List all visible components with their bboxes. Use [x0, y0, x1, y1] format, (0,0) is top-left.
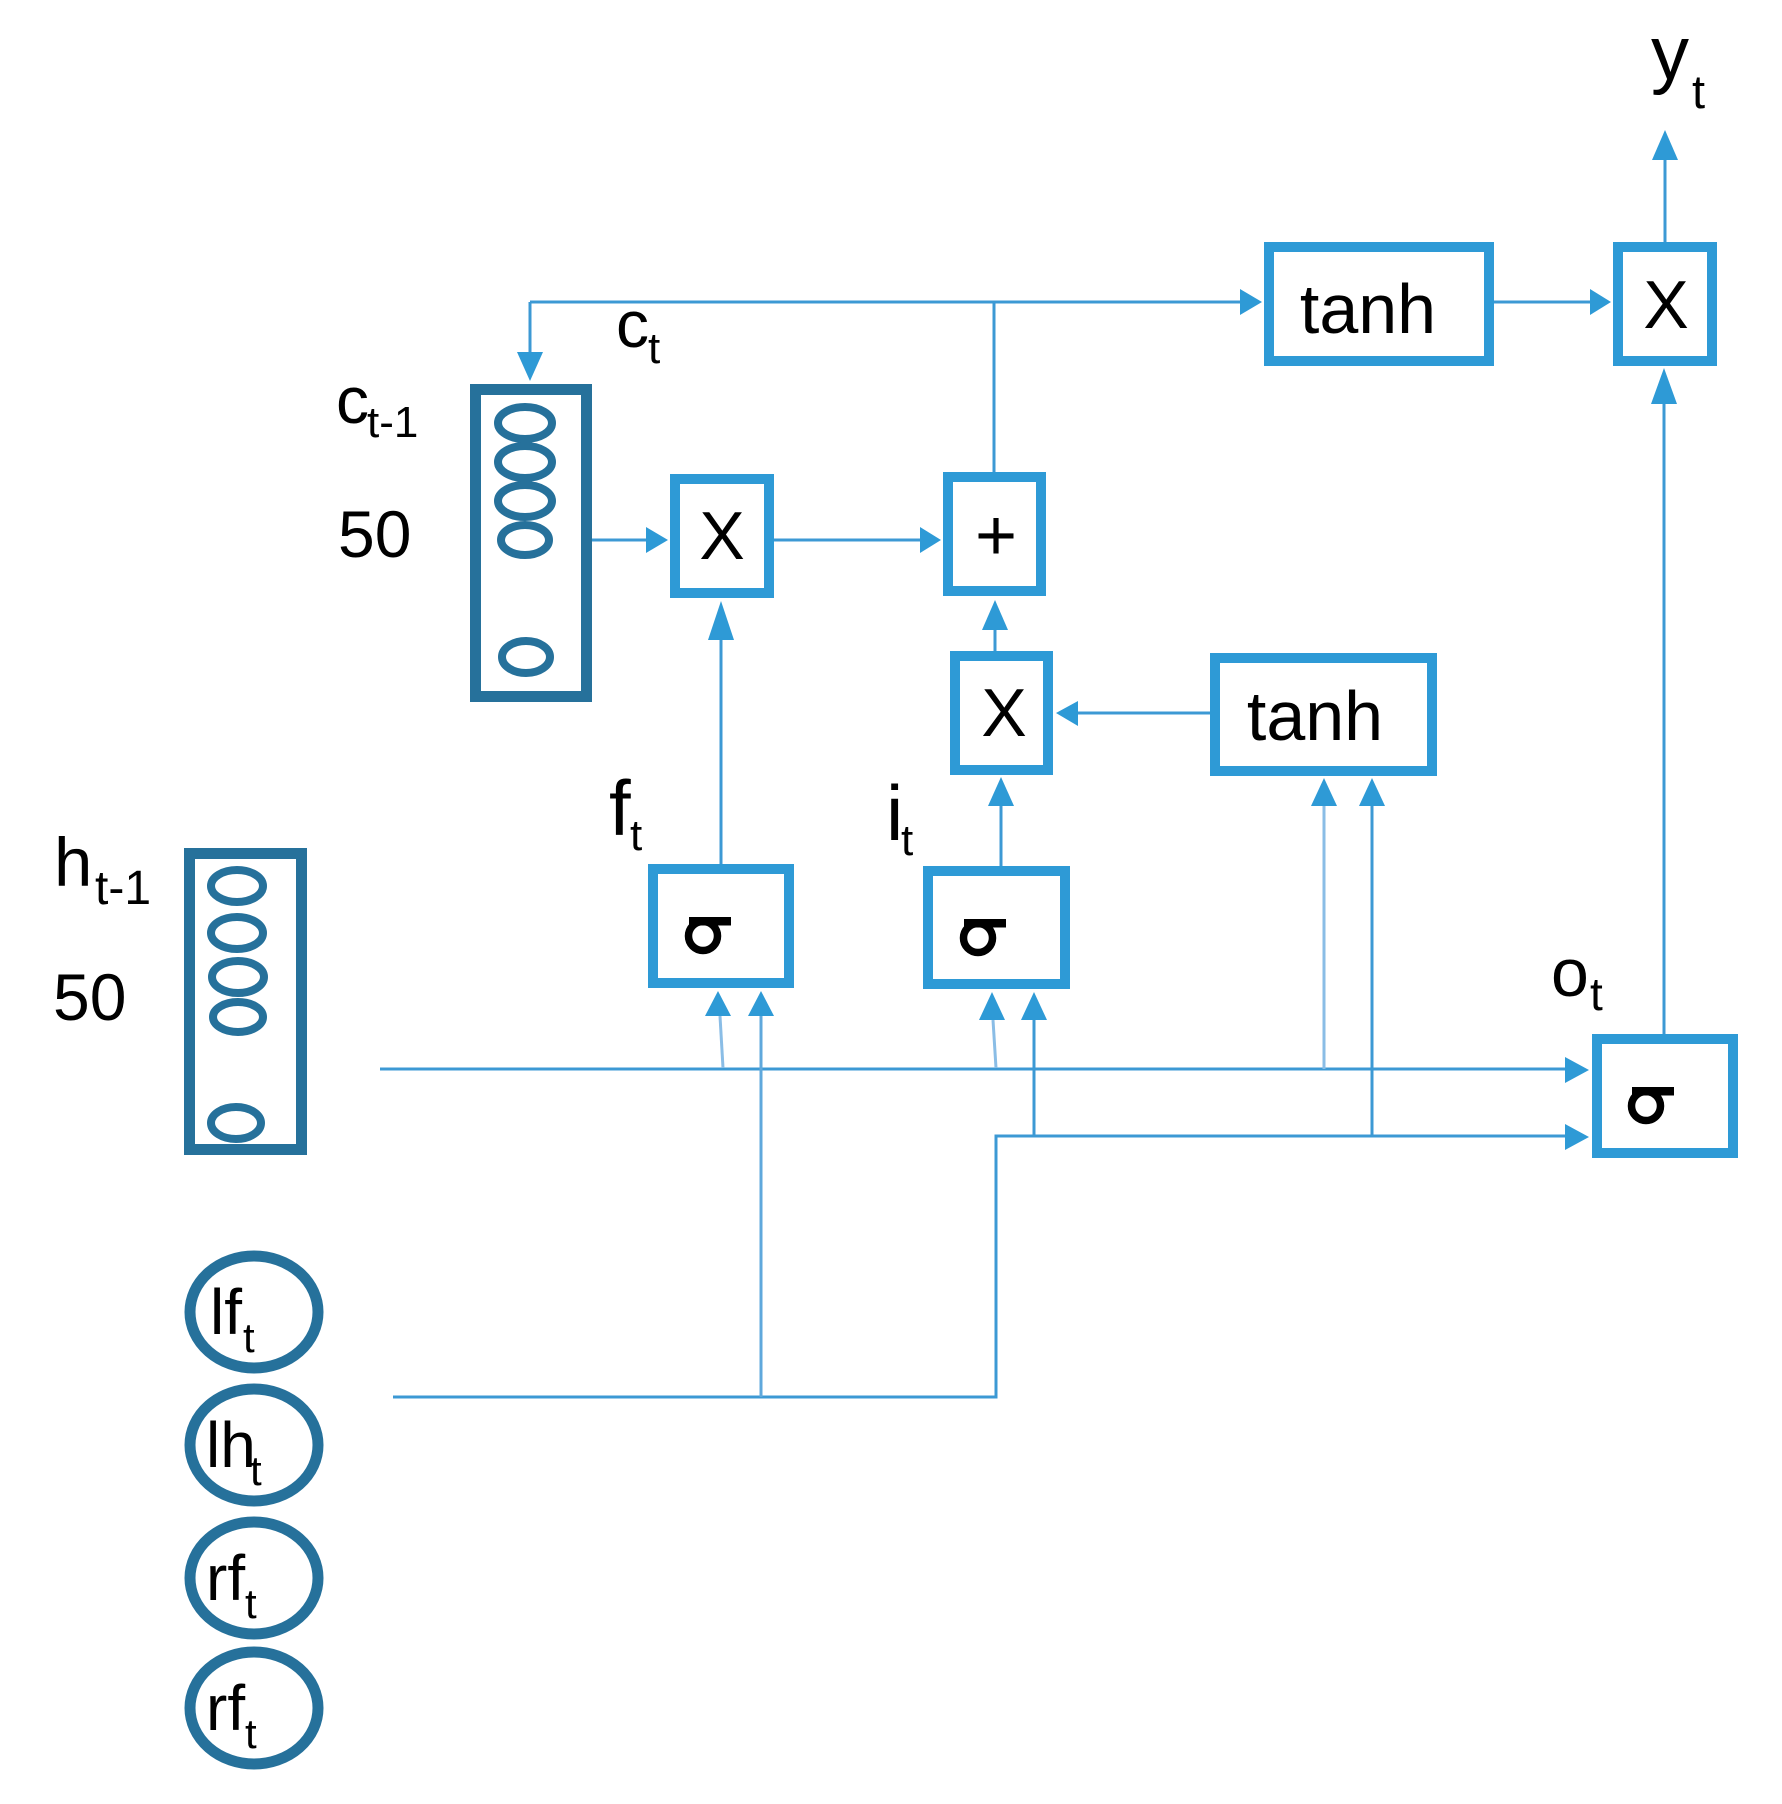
op X1 forget multiply [675, 479, 769, 593]
svg-text:t: t [648, 324, 660, 373]
arrowhead y_t [1652, 130, 1678, 160]
svg-text:h: h [54, 824, 92, 901]
wire: c_t drop down into cell vector [529, 302, 532, 354]
wire: h bus tap to sigma1 left input [720, 1016, 723, 1068]
arrowhead into Xtop bottom [1651, 368, 1677, 404]
node label o_t [1551, 935, 1603, 1020]
node label f_t [609, 764, 642, 860]
svg-text:tanh: tanh [1300, 270, 1436, 348]
wire: h bus tap to sigma2 left input [993, 1020, 996, 1068]
gate sigma1 forget gate [653, 869, 789, 983]
op plus cell update [948, 477, 1041, 591]
wire: sigma1 up to X1 [720, 640, 723, 864]
svg-text:lh: lh [206, 1409, 256, 1481]
wire: tanh2 to X2 [1078, 712, 1210, 715]
svg-text:c: c [336, 363, 369, 437]
svg-text:tanh: tanh [1247, 677, 1383, 755]
svg-text:t: t [630, 811, 642, 860]
svg-text:t-1: t-1 [95, 862, 151, 915]
gate sigma2 input gate [928, 871, 1065, 984]
arrowhead tanh2 left input [1311, 778, 1337, 806]
svg-text:+: + [975, 496, 1017, 576]
svg-text:o: o [1551, 935, 1589, 1011]
svg-text:rf: rf [206, 1672, 245, 1744]
svg-text:X: X [981, 675, 1026, 751]
arrowhead into X1 bottom [708, 601, 734, 640]
node label c_t [616, 287, 660, 373]
arrowhead into plus left [920, 527, 941, 553]
svg-text:rf: rf [206, 1542, 245, 1614]
wire: c vector to X1 [592, 539, 648, 542]
svg-text:50: 50 [53, 960, 126, 1034]
op X2 input multiply [955, 656, 1048, 770]
svg-text:c: c [616, 287, 649, 361]
wire: x bus tap to sigma1 right input [760, 1016, 763, 1397]
gate sigma3 output gate [1597, 1039, 1733, 1153]
svg-text:t: t [245, 1580, 257, 1627]
arrowhead sigma1 right input [748, 991, 774, 1016]
wire: plus output rising to c_t bus [993, 302, 996, 472]
arrowhead into X1 left [646, 527, 668, 553]
svg-text:y: y [1651, 11, 1689, 96]
svg-text:50: 50 [338, 497, 411, 571]
arrowhead into plus bottom [982, 600, 1008, 630]
op Xtop output multiply [1618, 247, 1712, 361]
wire: X2 up into plus [994, 630, 997, 651]
svg-text:t: t [901, 816, 913, 865]
node label c_t-1 [336, 363, 418, 447]
svg-text:t-1: t-1 [367, 398, 418, 447]
arrowhead into X2 right [1056, 701, 1078, 726]
arrowhead tanh2 right input [1359, 778, 1385, 806]
node label i_t [886, 769, 913, 865]
op tanh1 output squash [1269, 247, 1489, 361]
wire: y_t output rising [1664, 160, 1667, 242]
svg-text:t: t [1590, 968, 1603, 1020]
wire: c_t top horizontal bus [530, 301, 1240, 304]
node label h_t-1 [54, 824, 151, 915]
wire: sigma2 up to X2 [1000, 806, 1003, 866]
node label y_t [1651, 11, 1705, 118]
op tanh2 candidate [1215, 658, 1432, 771]
svg-text:f: f [609, 764, 631, 852]
svg-text:t: t [250, 1447, 262, 1494]
svg-text:lf: lf [210, 1276, 242, 1348]
arrowhead sigma1 left input [705, 991, 731, 1016]
input feature node rf_t second [190, 1652, 318, 1764]
arrowhead into X2 bottom [988, 777, 1014, 806]
wire: input x bus [393, 1136, 1565, 1397]
input feature node rf_t [190, 1522, 318, 1634]
hidden state vector h_t-1 [190, 854, 302, 1150]
wire: x bus tap to sigma2 right input [1033, 1020, 1036, 1136]
arrowhead into tanh1 left [1240, 289, 1262, 315]
svg-text:t: t [245, 1710, 257, 1757]
svg-text:X: X [699, 498, 744, 574]
arrowhead sigma2 right input [1021, 992, 1047, 1020]
arrowhead into sigma3 upper left [1565, 1057, 1589, 1083]
cell state vector c_t-1 [476, 390, 587, 697]
arrowhead sigma2 left input [979, 992, 1005, 1020]
svg-text:t: t [1692, 65, 1705, 118]
wire: recurrent h bus [380, 1068, 1565, 1071]
arrowhead into sigma3 lower left [1565, 1124, 1589, 1150]
wire: x bus tap to tanh2 right input [1371, 806, 1374, 1136]
svg-text:t: t [243, 1314, 255, 1361]
input feature node lf_t [190, 1256, 318, 1368]
wire: sigma3 output rising to Xtop [1663, 404, 1666, 1034]
wire: h bus tap to tanh2 left input [1323, 806, 1326, 1069]
arrowhead into c vector top [517, 352, 543, 381]
wire: X1 to plus [774, 539, 922, 542]
wire: tanh1 to Xtop [1494, 301, 1592, 304]
arrowhead into Xtop left [1590, 289, 1611, 315]
svg-text:X: X [1643, 267, 1688, 343]
input feature node lh_t [190, 1389, 318, 1501]
